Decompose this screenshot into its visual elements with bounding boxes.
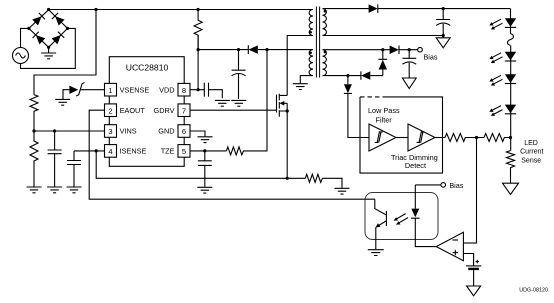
capacitor C-tze [198, 151, 212, 187]
svg-text:6: 6 [182, 127, 186, 136]
bridge diode D-TR [52, 13, 65, 26]
svg-text:8: 8 [182, 86, 186, 95]
wire GND pin6 [190, 131, 205, 136]
resistor R-startup [194, 10, 202, 50]
wire amp1-amp2 [396, 137, 408, 139]
svg-text:VINS: VINS [120, 127, 137, 136]
svg-text:3: 3 [108, 127, 112, 136]
capacitor C-pin8 [190, 83, 222, 99]
node VDD cap tap [237, 48, 240, 51]
node mosfet body-source [286, 109, 289, 112]
svg-text:Bias: Bias [424, 53, 438, 62]
bridge diode D-BR [51, 32, 64, 45]
svg-text:Current: Current [520, 149, 543, 156]
pin 5 box [178, 145, 190, 158]
mosfet Q1 [276, 95, 278, 113]
ground bridge [41, 47, 56, 59]
wire output rail [378, 8, 511, 10]
polarity dot aux [309, 52, 312, 55]
node VINS-b [53, 129, 56, 132]
wire aux winding bottom to ground [300, 76, 313, 84]
svg-text:2: 2 [108, 106, 112, 115]
resistor R-tze [226, 50, 267, 155]
node minus tap [475, 136, 478, 139]
node VDD-aux [197, 48, 200, 51]
node output cap [442, 7, 445, 10]
wire bias row2 [323, 49, 390, 51]
wire secondary return [323, 35, 444, 37]
polarity dot secondary [324, 10, 327, 13]
capacitor C-bias polarized [402, 50, 416, 78]
wire secondary top [323, 8, 369, 10]
IC U1 UCC28810 body [109, 57, 184, 167]
svg-text:TZE: TZE [161, 147, 175, 156]
wire TZE pin5 [190, 150, 226, 152]
pin 4 box [105, 145, 117, 158]
ground aux winding [293, 84, 308, 90]
ground R-source [335, 188, 350, 194]
wire AC to bridge loop [21, 28, 76, 68]
ground C-pin8 [215, 100, 230, 106]
transformer aux winding lower-left [309, 50, 313, 76]
bridge rectifier BR1 diamond [29, 10, 68, 48]
ground2 return (hollow) [442, 36, 444, 38]
ground C-tze [197, 187, 212, 193]
wire GDRV [190, 109, 277, 111]
bridge diode D-BL [33, 32, 46, 45]
svg-text:Low Pass: Low Pass [368, 106, 400, 115]
LED2 arrows [489, 53, 502, 63]
node row3 tap [346, 74, 349, 77]
resistor R-div-bot [30, 131, 38, 187]
pin 8 box [178, 83, 190, 96]
LED3 arrows [489, 75, 502, 85]
optocoupler U2 box [365, 193, 438, 240]
svg-text:GDRV: GDRV [154, 106, 175, 115]
pin 6 box [178, 125, 190, 138]
node bias d-up [381, 48, 384, 51]
ground2 battery (hollow) [467, 286, 481, 296]
resistor R-led-sense [507, 151, 515, 184]
wire VINS row [34, 130, 105, 132]
svg-text:LED: LED [524, 140, 538, 147]
wire ISENSE long [96, 151, 287, 178]
wire startup to VDD node [197, 35, 199, 89]
svg-text:UCC28810: UCC28810 [126, 63, 169, 73]
svg-text:1: 1 [108, 86, 112, 95]
svg-text:Filter: Filter [376, 115, 393, 124]
node rail-startup [197, 8, 200, 11]
pin 3 box [105, 125, 117, 138]
svg-text:ISENSE: ISENSE [120, 147, 147, 156]
node TZE cap [203, 149, 206, 152]
polarity dot bias winding [324, 51, 327, 54]
wire minus input [463, 138, 476, 244]
node bridge bottom [47, 46, 50, 49]
diode D-aux [247, 45, 249, 54]
wire aux row [198, 49, 248, 51]
op-amp U3 [436, 232, 463, 260]
wire bias row3 [323, 75, 361, 77]
wire aux to winding [258, 49, 313, 51]
svg-text:Bias: Bias [449, 181, 463, 190]
ground C-vins [47, 187, 62, 193]
ground2 led sense (hollow) [503, 183, 519, 194]
diode D-bias up [378, 50, 387, 60]
LED1 arrows [489, 19, 502, 29]
resistor R-div-top [30, 95, 38, 131]
node source-sense [286, 177, 289, 180]
diode D-row3 left [360, 71, 362, 79]
wire ISENSE pin [74, 150, 105, 152]
svg-text:4: 4 [108, 147, 112, 156]
wire EAOUT long [89, 110, 375, 199]
polarity dot primary [309, 31, 312, 34]
zener D-vsense [76, 83, 104, 97]
ground C-isense [67, 187, 82, 193]
LED3 [505, 74, 516, 83]
wire top rail primary [49, 9, 313, 11]
capacitor C-vdd polarized [232, 50, 246, 99]
diode D-bias fwd [390, 46, 399, 55]
LED string rail corner [510, 9, 512, 34]
capacitor C-isense [67, 151, 81, 187]
ground zener [55, 99, 70, 105]
LED2 [505, 52, 516, 61]
resistor R-lpf1 [445, 134, 484, 142]
LED4 arrows [489, 106, 502, 116]
resistor R-lpf2 [484, 134, 511, 142]
op-amp A1 lowpass [369, 124, 396, 151]
svg-text:Sense: Sense [521, 157, 541, 164]
node led sense [509, 136, 512, 139]
node VDD-pin8 [197, 88, 200, 91]
ground pin6 [198, 137, 213, 143]
svg-text:UDG-08120: UDG-08120 [519, 288, 548, 294]
op-amp A2 detect [408, 124, 435, 151]
wire divider feed [34, 10, 96, 95]
diode D-lpf down [347, 76, 349, 85]
pin 7 box [178, 104, 190, 117]
wire plus input [463, 254, 473, 266]
transformer bias winding lower-right [323, 50, 327, 76]
resistor R-source [287, 174, 342, 188]
svg-text:Detect: Detect [405, 161, 426, 170]
svg-text:EAOUT: EAOUT [120, 106, 146, 115]
node ISENSE tap [95, 149, 98, 152]
svg-text:5: 5 [182, 147, 186, 156]
transformer secondary winding upper-right [323, 9, 327, 36]
transformer T1 core [316, 7, 319, 78]
opto light arrows [394, 214, 408, 225]
pin 1 box [105, 83, 117, 96]
ground C-vdd [231, 100, 246, 106]
node return gnd [442, 34, 445, 37]
wire minus stub [463, 242, 476, 244]
LED1 [505, 18, 516, 27]
capacitor C-out polarized [436, 9, 450, 36]
svg-text:GND: GND [158, 127, 174, 136]
node bias cap [408, 48, 411, 51]
node rail-bridge [47, 8, 50, 11]
LPF box [360, 97, 443, 173]
terminal Bias2 [415, 184, 441, 186]
node rail-divider [94, 8, 97, 11]
transformer primary winding upper-left [309, 10, 313, 36]
svg-text:VSENSE: VSENSE [120, 85, 150, 94]
ground2 C-bias (hollow) [402, 78, 416, 89]
opto LED [414, 185, 416, 209]
pin 2 box [105, 104, 117, 117]
svg-text:VDD: VDD [159, 85, 174, 94]
battery Vref [466, 265, 481, 267]
ground opto emitter [368, 250, 384, 256]
capacitor C-vins [48, 131, 62, 187]
svg-text:7: 7 [182, 106, 186, 115]
diode D-out [369, 4, 378, 13]
node bridge right [66, 27, 69, 30]
bridge diode D-TL [32, 13, 45, 26]
wire drain [287, 36, 313, 96]
terminal Bias1 [418, 47, 423, 52]
node TZE tap [265, 48, 268, 51]
AC source V1 [13, 48, 29, 64]
node VINS-a [32, 129, 35, 132]
opto transistor [375, 199, 387, 227]
wire source [286, 111, 288, 178]
wire lpf out [435, 137, 445, 139]
wire break squiggle [508, 34, 514, 46]
LED4 [505, 105, 516, 114]
ground divider R [27, 187, 42, 193]
node bridge left [27, 27, 30, 30]
